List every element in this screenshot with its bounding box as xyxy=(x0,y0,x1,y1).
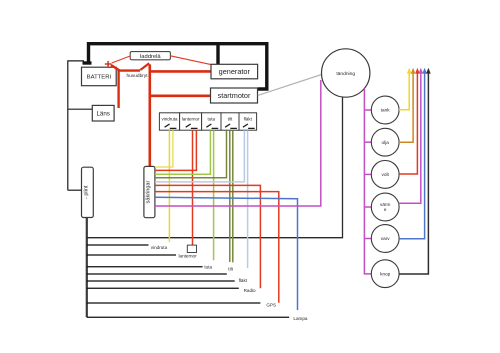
battery plus terminal xyxy=(105,61,112,67)
gauge olja xyxy=(371,128,399,156)
ignition switch tändning xyxy=(322,49,370,97)
wire ground thick loop battery-minus to startmotor xyxy=(89,44,267,89)
svg-text:tuta: tuta xyxy=(208,117,216,122)
fuse box säkringar xyxy=(144,166,155,217)
svg-text:tuta: tuta xyxy=(204,264,212,269)
svg-text:generator: generator xyxy=(219,67,251,76)
pump Läns xyxy=(92,105,114,121)
wire ground tilt xyxy=(87,273,227,275)
svg-text:varv: varv xyxy=(381,236,391,241)
svg-text:volt: volt xyxy=(382,172,390,177)
wire red thick to generator xyxy=(150,70,211,73)
svg-text:lanternor: lanternor xyxy=(182,117,200,122)
svg-text:- plint: - plint xyxy=(83,185,89,199)
svg-text:knop: knop xyxy=(380,271,391,276)
gauge knop xyxy=(371,260,399,288)
svg-text:Lampa: Lampa xyxy=(293,316,307,321)
startmotor box xyxy=(211,88,258,103)
wire thin ground battery to left bus xyxy=(68,61,84,190)
svg-text:säkringar: säkringar xyxy=(145,181,151,204)
battery BATTERI xyxy=(82,67,117,86)
generator box xyxy=(211,64,258,79)
svg-text:olja: olja xyxy=(382,140,390,145)
svg-text:vindruta: vindruta xyxy=(161,117,178,122)
gauge tank xyxy=(371,96,399,124)
wire magenta gauge bus from tändning xyxy=(364,88,371,274)
wire red plus to laddrelä xyxy=(112,56,131,63)
wire grey startmotor to tändning xyxy=(258,75,322,96)
switch box vindruta xyxy=(159,113,179,130)
load labels xyxy=(151,245,308,321)
wire ground fläkt xyxy=(87,280,235,282)
wire thin ground to plint xyxy=(68,189,82,191)
terminal block plint xyxy=(82,167,94,217)
wire ground tuta xyxy=(87,266,203,268)
wire ground Radio xyxy=(87,287,239,289)
switch box tuta xyxy=(202,113,221,130)
wire red feed säkringar to lanternor switch xyxy=(155,130,197,170)
switch box tilt xyxy=(221,113,239,130)
wire green feed säkringar to tuta switch xyxy=(155,130,211,174)
svg-text:BATTERI: BATTERI xyxy=(87,74,112,80)
svg-text:lanternor: lanternor xyxy=(179,254,198,259)
wire ground GPS xyxy=(87,302,261,304)
gauge värme xyxy=(371,193,399,221)
svg-text:startmotor: startmotor xyxy=(218,91,251,100)
wire red thick plus to Läns branch corner xyxy=(111,65,119,70)
wire red lanternor switch to load xyxy=(192,130,194,245)
wire olive feed säkringar to tilt switch xyxy=(155,130,227,178)
wire ground Lampa xyxy=(87,316,289,318)
wire olive tilt switch to load xyxy=(229,130,231,262)
gauge bus stubs xyxy=(364,110,371,239)
wire ground branch to generator xyxy=(216,44,219,65)
wire red volt sender with arrow xyxy=(399,72,417,174)
svg-text:huvudbryt: huvudbryt xyxy=(127,73,149,79)
switch glyphs xyxy=(165,124,255,128)
wire yellow tank sender with arrow xyxy=(399,72,409,110)
wire magenta värme sender with arrow xyxy=(398,72,420,203)
wire red säkringar to Radio xyxy=(155,185,261,288)
wire orange olja sender with arrow xyxy=(399,72,413,142)
switch box lanternor xyxy=(180,113,202,130)
wire black ground tändning xyxy=(87,96,343,238)
wire thin ground to Läns xyxy=(68,108,93,110)
svg-text:Läns: Läns xyxy=(96,111,109,118)
svg-text:Radio: Radio xyxy=(244,288,256,293)
wire red thick to startmotor xyxy=(150,95,211,98)
ground bus below plint xyxy=(86,218,88,318)
svg-text:tilt: tilt xyxy=(228,266,233,271)
wire red laddrelä to generator xyxy=(170,56,211,65)
connector box on lanternor wire xyxy=(187,245,196,252)
wire magenta säkringar to tändning xyxy=(155,80,321,206)
wire blue varv sender with arrow xyxy=(399,72,424,239)
svg-text:vindruta: vindruta xyxy=(151,245,168,250)
switch huvudbrytare blade xyxy=(140,63,149,70)
wire lightblue fläkt switch to load xyxy=(247,130,249,268)
svg-text:laddrelä: laddrelä xyxy=(140,54,161,60)
gauge varv xyxy=(371,225,399,253)
svg-text:fläkt: fläkt xyxy=(244,117,253,122)
wire yellow vindruta switch to load xyxy=(168,130,170,242)
battery minus terminal tab xyxy=(83,61,92,64)
switch panel row xyxy=(159,113,256,130)
svg-text:tank: tank xyxy=(381,108,391,113)
gauge volt xyxy=(371,161,399,189)
svg-text:GPS: GPS xyxy=(266,302,276,307)
wire blue säkringar to Lampa xyxy=(155,197,298,310)
svg-text:fläkt: fläkt xyxy=(239,278,248,283)
wire ground vindruta xyxy=(87,244,149,246)
wire yellow feed säkringar to vindruta switch xyxy=(155,130,173,167)
wire red thick main feed down to säkringar xyxy=(149,64,152,166)
svg-text:tilt: tilt xyxy=(228,117,233,122)
wire green tuta switch to load xyxy=(213,130,215,260)
wire lightblue feed säkringar to fläkt switch xyxy=(155,130,245,182)
wire ground lanternor xyxy=(87,254,176,256)
relay laddrelä xyxy=(130,52,170,60)
switch box fläkt xyxy=(239,113,257,130)
svg-text:tändning: tändning xyxy=(336,71,355,77)
wire red thick drop to Läns xyxy=(117,69,119,108)
wire black knop sender with arrow xyxy=(399,72,428,274)
wire red säkringar to GPS xyxy=(155,192,279,303)
svg-text:e: e xyxy=(384,207,387,212)
wire red thick to main switch xyxy=(118,69,140,71)
